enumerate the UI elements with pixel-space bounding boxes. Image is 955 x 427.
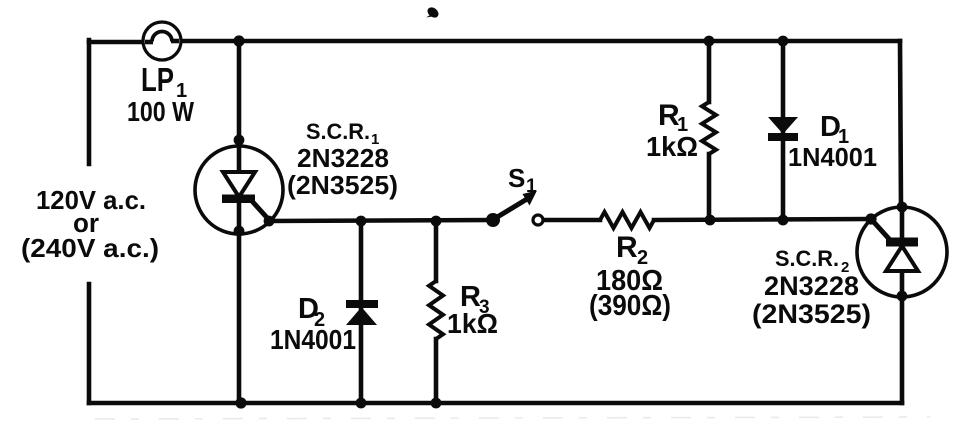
svg-text:S.C.R.: S.C.R. — [775, 246, 839, 271]
junction SCR2 circle bottom — [897, 291, 908, 302]
wire D1 branch vertical — [781, 41, 786, 220]
svg-text:(390Ω): (390Ω) — [589, 290, 671, 322]
junction SCR1 circle top — [234, 135, 245, 146]
SCR U2 S.C.R.2 — [857, 207, 947, 297]
svg-text:1: 1 — [526, 176, 537, 197]
wire R1 branch vertical lower — [707, 154, 712, 220]
wire R2 to SCR2 gate junction — [654, 219, 871, 220]
svg-text:2N3228: 2N3228 — [764, 271, 859, 301]
svg-text:2N3228: 2N3228 — [297, 143, 389, 173]
label LP1 — [141, 61, 187, 102]
junction SCR2 circle top — [897, 202, 908, 213]
switch S1 — [486, 191, 543, 228]
junction bottom rail / SCR1 — [235, 397, 246, 408]
scan smudge artifact — [95, 417, 930, 419]
svg-text:1kΩ: 1kΩ — [447, 308, 498, 339]
ink blot artifact — [426, 5, 441, 19]
label S.C.R.1 — [306, 119, 379, 148]
svg-text:(2N3525): (2N3525) — [752, 299, 871, 329]
wire gate bus SCR1 to switch pole — [269, 220, 493, 221]
svg-text:R: R — [616, 231, 638, 264]
junction bus / R3 — [431, 216, 442, 227]
wire bottom rail — [89, 401, 902, 406]
wire top rail right segment — [172, 39, 900, 44]
svg-text:100 W: 100 W — [127, 96, 194, 127]
wire right vertical — [900, 41, 901, 208]
svg-text:(240V a.c.): (240V a.c.) — [21, 233, 159, 263]
wire left vertical upper — [87, 40, 92, 164]
resistor R1 — [702, 102, 716, 154]
svg-text:1N4001: 1N4001 — [788, 142, 877, 172]
label D1 — [820, 111, 849, 148]
junction SCR1 circle bottom — [234, 226, 245, 237]
diode D2 — [346, 300, 378, 325]
svg-text:1N4001: 1N4001 — [270, 324, 356, 355]
resistor R2 — [600, 212, 654, 228]
junction bottom rail / R3 — [431, 398, 442, 409]
junction bus / D1 — [778, 215, 789, 226]
SCR U1 S.C.R.1 — [195, 146, 283, 234]
label S1 — [508, 163, 537, 197]
wire switch to R2 — [543, 218, 600, 223]
junction top rail / SCR1 — [233, 35, 244, 46]
junction top rail / D1 — [778, 36, 789, 47]
wire D2 branch vertical — [359, 221, 364, 403]
label R1 — [658, 99, 688, 136]
junction bottom rail / D2 — [356, 398, 367, 409]
label S.C.R.2 — [775, 246, 849, 276]
junction SCR1 gate / bus — [264, 216, 275, 227]
svg-text:LP: LP — [141, 61, 174, 98]
resistor R3 — [429, 281, 443, 339]
junction top rail / R1 — [704, 36, 715, 47]
wire left vertical lower — [87, 284, 92, 403]
junction bus / R1 — [705, 215, 716, 226]
wire R3 branch vertical lower — [434, 339, 439, 403]
svg-text:1kΩ: 1kΩ — [646, 131, 698, 162]
svg-text:(2N3525): (2N3525) — [287, 170, 398, 200]
wire top rail left segment — [89, 40, 152, 45]
label D2 — [298, 293, 325, 331]
label R3 — [460, 281, 490, 318]
svg-text:S: S — [508, 163, 525, 193]
wire SCR1 cathode to bottom rail — [237, 202, 242, 403]
wire R1 branch vertical upper — [707, 41, 712, 102]
junction SCR2 gate node — [865, 213, 876, 224]
lamp LP1 — [143, 22, 181, 60]
wire SCR2 cathode to bottom rail — [900, 296, 905, 403]
wire R3 branch vertical upper — [434, 221, 439, 281]
wire SCR1 branch vertical — [237, 41, 242, 172]
diode D1 — [768, 117, 798, 141]
label R2 — [616, 231, 648, 269]
svg-text:S.C.R.: S.C.R. — [306, 119, 370, 144]
junction bus / D2 — [356, 216, 367, 227]
